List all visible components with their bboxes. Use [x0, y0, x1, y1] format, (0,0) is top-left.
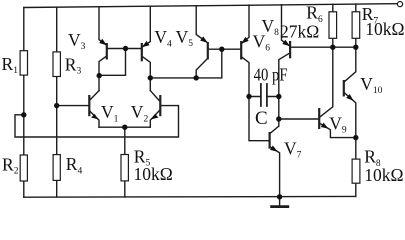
junction dot capacitor right [276, 94, 281, 99]
transistor V1 base bar [88, 95, 90, 116]
wire V3 emitter drop [99, 7, 107, 46]
junction dot R1-R2 input [21, 112, 26, 117]
wire V1 collector [89, 91, 99, 101]
svg-text:40 pF: 40 pF [254, 64, 288, 84]
svg-text:V9: V9 [329, 113, 347, 135]
wire V2 emitter [150, 111, 159, 128]
junction dot R6 bottom [330, 45, 335, 50]
arrow V9 emitter [321, 123, 329, 129]
junction dot V3 collector tie [97, 73, 102, 78]
svg-text:10kΩ: 10kΩ [365, 19, 404, 39]
svg-text:V7: V7 [284, 139, 302, 161]
wire input feedback loop to V2 base [15, 106, 179, 137]
node supply terminal circle [397, 2, 402, 7]
wire R7 column V10 collector [345, 4, 356, 82]
resistor R8 [352, 159, 360, 183]
wire V1 base [57, 105, 89, 107]
wire V1 emitter [89, 111, 99, 128]
wire V8 collector down cap and V9 base node [279, 53, 290, 126]
svg-text:R1: R1 [2, 54, 19, 76]
resistor R7 [352, 12, 360, 39]
ground symbol stub [279, 197, 281, 207]
wire V7 collector [270, 126, 279, 134]
arrow V1 emitter [91, 114, 98, 120]
transistor V2 base bar [159, 95, 161, 116]
wire mirror link V4 collector to V5 [150, 49, 222, 78]
wire R6 column and V9 collector [320, 4, 333, 117]
wire R3/R4 column [56, 7, 58, 197]
wire V9 emitter [319, 123, 356, 138]
resistor R4 [53, 155, 60, 181]
resistor R6 [329, 12, 337, 39]
svg-text:V10: V10 [360, 74, 382, 96]
junction dot V9 base node [276, 116, 281, 121]
ground symbol bar [272, 205, 288, 208]
transistor V4 base bar [141, 43, 143, 61]
svg-text:C: C [255, 108, 268, 129]
arrow V8 emitter [282, 40, 290, 47]
svg-text:10kΩ: 10kΩ [364, 165, 403, 185]
junction dot V9 V10 emitters R8 [353, 135, 358, 140]
wire V10 emitter and R8 column [344, 92, 356, 196]
wire V3 base tie loop [99, 49, 125, 76]
svg-text:R4: R4 [66, 154, 83, 176]
wire V5 collector [196, 58, 208, 78]
svg-text:V4: V4 [154, 27, 172, 49]
wire V4 collector [142, 56, 151, 90]
junction dot emitters to R5 [122, 125, 127, 130]
transistor V3 base bar [106, 43, 108, 60]
svg-text:V1: V1 [101, 102, 119, 124]
transistor V5 base bar [207, 42, 209, 60]
transistor V9 base bar [318, 108, 320, 129]
wire emitter join to R5 [99, 127, 150, 197]
wire V4 emitter drop [142, 6, 151, 47]
arrow V7 emitter [270, 146, 278, 152]
wire bottom ground rail [24, 195, 356, 198]
resistor R5 [121, 155, 128, 181]
arrow V2 emitter [151, 114, 158, 120]
wire V6 collector down to V7 base [241, 57, 268, 141]
junction dot V5-V6 bases [219, 47, 224, 52]
svg-text:27kΩ: 27kΩ [280, 21, 319, 41]
arrow V5 emitter [200, 36, 208, 43]
wire R1/R2 column [23, 8, 25, 198]
wire V8 base to R6 R7 [290, 46, 356, 48]
transistor V6 base bar [240, 41, 242, 60]
wire V6 emitter drop [241, 5, 249, 44]
junction dot ground node [277, 194, 282, 199]
svg-text:R6: R6 [306, 3, 323, 25]
svg-text:10kΩ: 10kΩ [134, 164, 173, 184]
svg-text:V3: V3 [68, 30, 86, 52]
junction dot V4 collector node [148, 75, 153, 80]
wire V9 base [279, 118, 318, 120]
junction dot V3-V4 bases [123, 46, 128, 51]
arrow V6 emitter [241, 37, 249, 44]
junction dot V5 collector tie [194, 75, 199, 80]
arrow V10 emitter [346, 94, 353, 101]
svg-text:V5: V5 [176, 27, 194, 49]
svg-text:R2: R2 [2, 154, 19, 176]
resistor R1 [20, 51, 27, 75]
wire top supply rail [24, 4, 397, 8]
transistor V7 base bar [269, 132, 271, 149]
junction dot R7 bottom [353, 45, 358, 50]
wire V5-V6 base link [208, 48, 241, 50]
capacitor C plates [261, 84, 267, 106]
transistor V10 base bar [343, 80, 345, 97]
arrow V4 emitter [142, 41, 150, 47]
wire V3 collector [99, 56, 107, 91]
svg-text:R3: R3 [65, 54, 82, 76]
arrow V3 emitter [99, 39, 107, 46]
junction dot R3-R4 V1 base [54, 103, 59, 108]
wire V2 collector [150, 91, 159, 101]
svg-text:V8: V8 [262, 16, 280, 38]
capacitor C 40pF leads [249, 96, 279, 98]
svg-text:V2: V2 [131, 102, 149, 124]
transistor V8 base bar [289, 41, 291, 58]
wire V8 emitter drop [282, 5, 291, 47]
wire V5 emitter drop [196, 6, 208, 43]
resistor R2 [20, 155, 27, 181]
junction dot capacitor left [246, 94, 251, 99]
resistor R3 [53, 52, 60, 77]
wire V7 emitter [270, 147, 280, 197]
wire V3-V4 base link [107, 48, 142, 50]
